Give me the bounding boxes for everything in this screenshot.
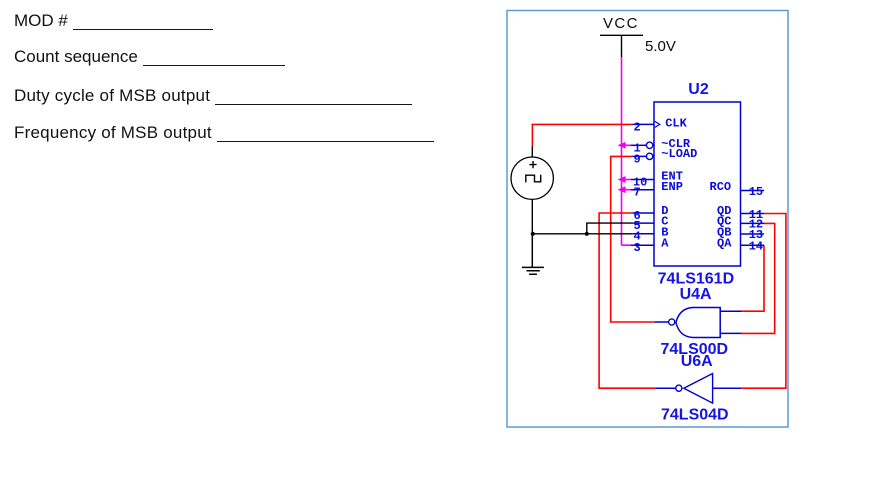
pin 14 QA stub [741,239,765,253]
wire NAND output to pin 9 ~LOAD (red) [611,156,655,322]
inverter output stub [655,387,675,389]
pin 11 QD stub [741,208,765,222]
pin 7 ENP stub [631,186,654,200]
wire inverter output to pin 6 D (red) [599,213,655,388]
svg-text:RCO: RCO [710,180,732,194]
svg-text:14: 14 [749,239,763,253]
clock source V1 top lead [531,146,533,157]
pin 12 QC stub [741,218,765,232]
junction arrow at pin 10 [618,176,626,183]
svg-text:7: 7 [634,186,641,200]
junction dot at source bottom [531,232,535,236]
svg-text:3: 3 [634,241,641,255]
svg-text:U4A: U4A [680,286,712,303]
question line 1 [14,11,213,31]
svg-text:ENP: ENP [661,180,683,194]
svg-text:~LOAD: ~LOAD [661,147,697,161]
clock input wedge on pin 2 [655,121,660,127]
question line 3 [14,86,412,106]
IC U2 body [654,102,741,266]
pin 4 B stub [632,230,654,244]
svg-text:U6A: U6A [681,353,713,370]
NAND output bubble [669,319,675,325]
svg-text:CLK: CLK [665,117,687,131]
clock source V1 body [511,157,553,199]
wire QA pin 14 to NAND upper input (red) [742,245,764,311]
pin 6 D stub [632,209,654,223]
wire QD pin 11 to inverter input (red) [741,214,786,389]
junction dot at pin C branch [585,232,589,236]
question line 4 [14,123,434,143]
svg-text:74LS04D: 74LS04D [661,406,729,423]
pin 15 RCO stub [741,185,765,199]
schematic frame [507,11,788,428]
svg-text:QA: QA [717,236,732,250]
pin 13 QB stub [741,228,765,242]
inverter output bubble [676,385,682,391]
svg-text:A: A [661,236,669,250]
svg-text:U2: U2 [688,81,709,98]
pin 10 ENT stub [631,176,654,190]
question line 2 [14,47,285,67]
NAND gate U4A body (mirrored) [676,308,720,338]
pin 2 CLK stub [632,120,654,134]
svg-text:15: 15 [749,185,763,199]
svg-text:2: 2 [634,120,641,134]
inverter input stub [713,387,742,389]
NAND input stubs [720,311,741,333]
svg-text:VCC: VCC [603,15,639,32]
svg-text:74LS161D: 74LS161D [658,271,735,288]
pin 5 C stub [632,219,654,233]
svg-text:9: 9 [634,152,641,166]
clock source waveform glyph [526,175,541,183]
clock source plus sign [529,161,536,168]
NAND output stub [654,321,668,323]
ground symbol [522,234,544,274]
junction arrow at pin 7 [618,186,626,193]
pin 9 ~LOAD stub with bubble [632,152,653,166]
wire VCC net (magenta) from VCC down to pin 3 [622,57,632,245]
inverter U6A body (mirrored) [684,374,713,404]
junction arrow at pin 1 [618,142,626,149]
pin 1 ~CLR stub with bubble [631,141,653,155]
svg-text:5.0V: 5.0V [645,38,676,55]
wire QC pin 12 to NAND lower input (red) [742,223,775,333]
pin 3 A stub [631,241,654,255]
wire ground bus to pins B and C (black) [532,223,632,234]
wire clock source to CLK pin 2 (red) [532,124,632,146]
power VCC symbol [600,35,643,57]
clock source bottom lead [531,199,533,234]
